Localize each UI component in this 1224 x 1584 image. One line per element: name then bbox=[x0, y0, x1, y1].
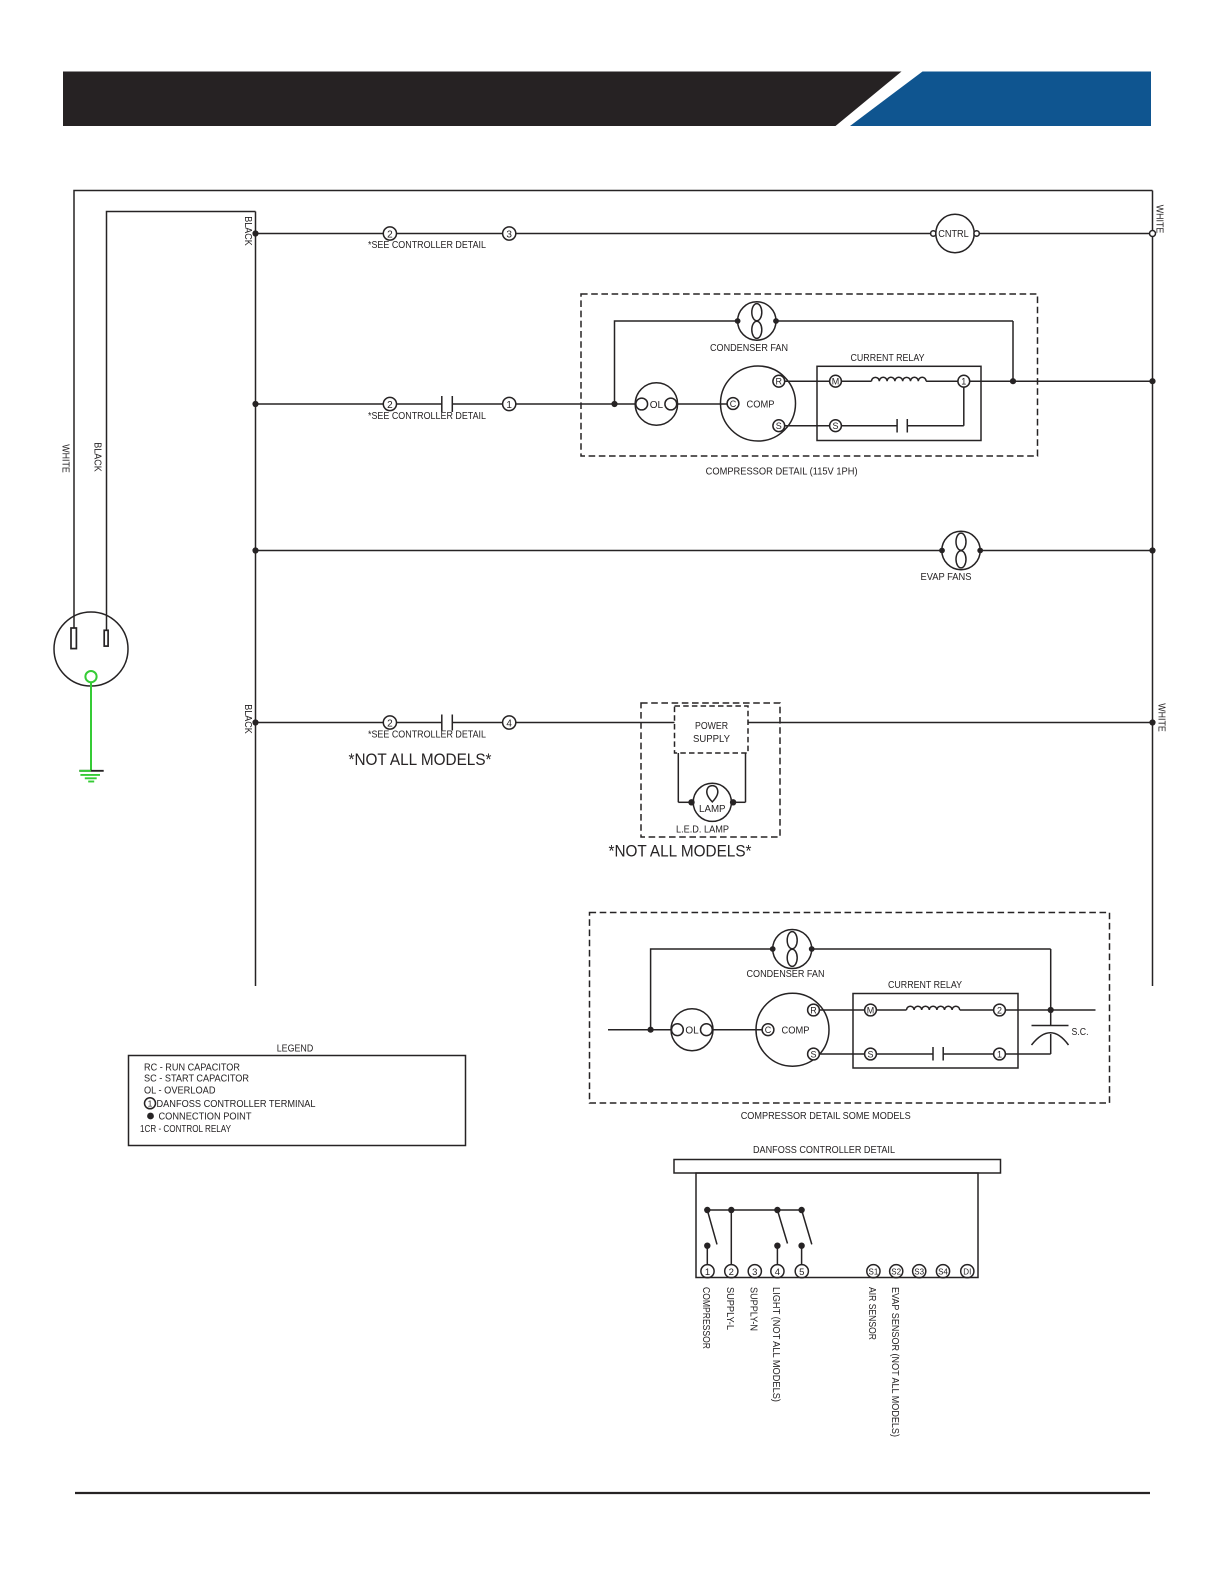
terminal 4 bbox=[771, 1265, 784, 1278]
relay capacitor bars bbox=[897, 419, 907, 433]
svg-text:*NOT ALL MODELS*: *NOT ALL MODELS* bbox=[609, 843, 753, 861]
svg-text:*SEE CONTROLLER DETAIL: *SEE CONTROLLER DETAIL bbox=[368, 411, 486, 422]
lower dot t4 bbox=[774, 1243, 780, 1249]
svg-text:2: 2 bbox=[387, 229, 393, 240]
svg-text:S4: S4 bbox=[938, 1267, 948, 1276]
svg-text:COMP: COMP bbox=[782, 1024, 810, 1036]
wire white right bus bbox=[1152, 191, 1154, 987]
terminal S2 bbox=[890, 1265, 903, 1278]
RUNG2 compressor line bbox=[252, 294, 1155, 478]
legend danfoss terminal symbol bbox=[145, 1098, 156, 1109]
junction dot white bus rung4 bbox=[1149, 719, 1155, 725]
svg-text:CNTRL: CNTRL bbox=[938, 229, 969, 240]
terminal 2 bbox=[725, 1265, 738, 1278]
junction dot fan branch bbox=[611, 401, 617, 407]
svg-text:M: M bbox=[832, 377, 840, 387]
svg-text:4: 4 bbox=[775, 1267, 780, 1278]
svg-text:4: 4 bbox=[506, 718, 512, 729]
ground wire (green) bbox=[90, 682, 92, 770]
junction dot white bus evap bbox=[1149, 547, 1155, 553]
RUNG1 control line bbox=[242, 205, 1165, 253]
current relay box bbox=[817, 366, 981, 440]
svg-text:2: 2 bbox=[387, 718, 393, 729]
terminal 1 bbox=[701, 1265, 714, 1278]
wire R to M bbox=[785, 380, 830, 382]
rail dot t5 bbox=[798, 1207, 804, 1213]
svg-text:DI: DI bbox=[963, 1267, 971, 1276]
wire rung4 to power supply bbox=[516, 722, 675, 724]
controller body bbox=[696, 1173, 978, 1278]
wire rung2 into box bbox=[516, 403, 636, 405]
LED lamp outer box (dashed) bbox=[641, 703, 780, 837]
relay coil bbox=[872, 377, 927, 381]
svg-text:1: 1 bbox=[997, 1050, 1002, 1060]
svg-text:2: 2 bbox=[729, 1267, 734, 1278]
svg-text:R: R bbox=[776, 377, 783, 387]
svg-text:S: S bbox=[832, 421, 838, 431]
svg-text:S: S bbox=[810, 1050, 816, 1060]
wire power supply to white bus bbox=[748, 722, 1150, 724]
svg-text:CONDENSER FAN: CONDENSER FAN bbox=[710, 343, 788, 354]
lamp filament loop bbox=[707, 786, 718, 802]
svg-text:C: C bbox=[730, 399, 737, 409]
condenser fan motor bbox=[738, 302, 776, 340]
svg-text:COMPRESSOR DETAIL SOME MODELS: COMPRESSOR DETAIL SOME MODELS bbox=[741, 1111, 911, 1122]
rail dot t4 bbox=[774, 1207, 780, 1213]
wire S2 to relay bbox=[819, 1053, 864, 1055]
svg-text:R: R bbox=[810, 1006, 817, 1016]
svg-text:1: 1 bbox=[148, 1099, 153, 1109]
wire M to coil bbox=[841, 380, 871, 382]
evap fan motor bbox=[942, 531, 980, 569]
header black banner bbox=[63, 72, 902, 127]
wire rung2 mid-left bbox=[397, 403, 442, 405]
plug hot blade bbox=[104, 630, 108, 646]
terminal R 2 bbox=[808, 1004, 820, 1016]
overload OL bbox=[635, 383, 677, 425]
plug neutral blade bbox=[71, 628, 76, 649]
svg-text:BLACK: BLACK bbox=[242, 216, 254, 246]
wire OL to COMP bbox=[677, 403, 727, 405]
svg-text:2: 2 bbox=[387, 400, 393, 411]
svg-text:S2: S2 bbox=[891, 1267, 901, 1276]
controller terminal 4 bbox=[503, 716, 516, 729]
wire coil2 to terminal 2 bbox=[960, 1009, 994, 1011]
rail dot t1 bbox=[704, 1207, 710, 1213]
wire rung4 left bbox=[256, 722, 384, 724]
wire M2 to coil bbox=[876, 1009, 906, 1011]
wire capacitor to 1 leg bbox=[907, 387, 964, 426]
wire fan2 to right drop bbox=[812, 949, 1051, 1007]
svg-text:CONDENSER FAN: CONDENSER FAN bbox=[747, 969, 825, 980]
junction dot black bus rung4 bbox=[252, 719, 258, 725]
wire black left bus bbox=[255, 212, 257, 987]
CNTRL coil left terminal bbox=[931, 231, 936, 236]
svg-text:M: M bbox=[867, 1006, 875, 1016]
wire fan to right drop bbox=[776, 321, 1013, 381]
wire S to cap bbox=[785, 425, 830, 427]
relay terminal M 2 bbox=[865, 1004, 877, 1016]
relay coil 2 bbox=[907, 1006, 960, 1010]
start capacitor SC bbox=[1050, 1010, 1052, 1026]
svg-text:5: 5 bbox=[799, 1267, 804, 1278]
svg-text:EVAP FANS: EVAP FANS bbox=[921, 572, 972, 583]
fan2 left dot bbox=[770, 946, 776, 952]
CNTRL coil bbox=[936, 214, 974, 252]
wire rung4 mid-right bbox=[452, 722, 502, 724]
junction dot black bus evap bbox=[252, 547, 258, 553]
compressor detail box (dashed) bbox=[581, 294, 1038, 456]
wire coil to 1 bbox=[926, 380, 958, 382]
CNTRL coil right terminal bbox=[974, 231, 979, 236]
compressor COMP bbox=[721, 366, 796, 441]
lamp left dot bbox=[688, 799, 694, 805]
switch blade 1 bbox=[707, 1210, 717, 1244]
svg-text:AIR SENSOR: AIR SENSOR bbox=[866, 1287, 878, 1340]
wire 1 to white bus bbox=[970, 380, 1150, 382]
relay terminal S bbox=[830, 420, 842, 432]
terminal S4 bbox=[936, 1265, 949, 1278]
wire rung2 mid-right bbox=[452, 403, 502, 405]
header blue banner bbox=[850, 72, 1151, 127]
fan left dot bbox=[735, 318, 741, 324]
svg-text:SC - START CAPACITOR: SC - START CAPACITOR bbox=[144, 1073, 249, 1084]
junction dot right of box bbox=[1010, 378, 1016, 384]
svg-text:1: 1 bbox=[961, 377, 966, 387]
wire evap right bbox=[980, 550, 1150, 552]
wire black from plug up and across bbox=[107, 212, 256, 632]
svg-text:1: 1 bbox=[506, 400, 512, 411]
svg-text:LIGHT (NOT ALL MODELS): LIGHT (NOT ALL MODELS) bbox=[770, 1287, 782, 1402]
svg-text:S3: S3 bbox=[914, 1267, 924, 1276]
svg-text:*SEE CONTROLLER DETAIL: *SEE CONTROLLER DETAIL bbox=[368, 730, 486, 741]
lower dot t5 bbox=[798, 1243, 804, 1249]
switch blade 5 bbox=[802, 1210, 812, 1244]
legend box bbox=[129, 1056, 466, 1146]
overload OL 2 bbox=[671, 1009, 713, 1051]
COMPRESSOR BOX 2 bbox=[590, 913, 1110, 1123]
svg-text:LEGEND: LEGEND bbox=[277, 1044, 314, 1055]
lower dot t1 bbox=[704, 1243, 710, 1249]
wire rung2 left bbox=[256, 403, 384, 405]
wire rung1 to CNTRL bbox=[516, 233, 931, 235]
junction dot white bus rung2 bbox=[1149, 378, 1155, 384]
wire lamp right bbox=[731, 801, 745, 803]
EVAP rung bbox=[252, 531, 1155, 583]
svg-text:OL: OL bbox=[685, 1026, 699, 1037]
svg-text:S: S bbox=[776, 421, 782, 431]
svg-text:DANFOSS CONTROLLER TERMINAL: DANFOSS CONTROLLER TERMINAL bbox=[157, 1099, 316, 1110]
terminal S3 bbox=[913, 1265, 926, 1278]
svg-text:2: 2 bbox=[997, 1006, 1002, 1016]
controller terminal 3 bbox=[503, 227, 516, 240]
svg-text:1: 1 bbox=[705, 1267, 710, 1278]
wire rung1 mid bbox=[397, 233, 503, 235]
PLUG bbox=[54, 442, 128, 781]
LED lamp bbox=[693, 783, 731, 821]
controller terminal 2 bbox=[383, 716, 396, 729]
wire rung1 left bbox=[256, 233, 384, 235]
switch blade 4 bbox=[777, 1210, 787, 1244]
wire OL2 to COMP2 bbox=[712, 1029, 762, 1031]
svg-text:1CR - CONTROL RELAY: 1CR - CONTROL RELAY bbox=[140, 1124, 231, 1135]
terminal 3 bbox=[748, 1265, 761, 1278]
svg-text:*SEE CONTROLLER DETAIL: *SEE CONTROLLER DETAIL bbox=[368, 240, 486, 251]
relay terminal 1 bbox=[958, 375, 970, 387]
svg-text:CONNECTION POINT: CONNECTION POINT bbox=[159, 1112, 252, 1123]
wire R2 to M2 bbox=[819, 1009, 864, 1011]
wire lamp left bbox=[678, 801, 693, 803]
relay common rail bbox=[707, 1209, 801, 1211]
svg-text:CURRENT RELAY: CURRENT RELAY bbox=[851, 353, 925, 364]
terminal DI bbox=[961, 1265, 974, 1278]
junction dot fan branch 2 bbox=[648, 1027, 654, 1033]
wire capacitor2 to 1 bbox=[943, 1053, 993, 1055]
terminal S 2 bbox=[808, 1048, 820, 1060]
terminal S bbox=[773, 420, 785, 432]
compressor detail some models box (dashed) bbox=[590, 913, 1110, 1104]
relay terminal M bbox=[830, 375, 842, 387]
fan2 right dot bbox=[809, 946, 815, 952]
condenser fan motor 2 bbox=[773, 930, 812, 969]
controller terminal 2 bbox=[383, 397, 396, 410]
wire PS right leg bbox=[745, 753, 747, 802]
wire evap left bbox=[256, 550, 943, 552]
svg-text:C: C bbox=[765, 1025, 772, 1035]
controller terminal 1 bbox=[503, 397, 516, 410]
power supply box (dashed) bbox=[675, 706, 749, 753]
terminal C 2 bbox=[762, 1024, 774, 1036]
plug body bbox=[54, 612, 128, 686]
junction dot black bus rung2 bbox=[252, 401, 258, 407]
svg-text:COMP: COMP bbox=[747, 398, 775, 410]
legend connection point symbol bbox=[147, 1113, 154, 1120]
svg-text:OL - OVERLOAD: OL - OVERLOAD bbox=[144, 1086, 216, 1097]
svg-text:3: 3 bbox=[752, 1267, 757, 1278]
svg-text:BLACK: BLACK bbox=[91, 442, 103, 472]
wire to condenser fan bbox=[615, 321, 738, 404]
controller terminal 2 bbox=[383, 227, 396, 240]
stub t1 bbox=[706, 1246, 708, 1265]
svg-text:OL: OL bbox=[650, 400, 664, 411]
compressor COMP 2 bbox=[756, 993, 829, 1066]
svg-text:EVAP SENSOR (NOT ALL MODELS): EVAP SENSOR (NOT ALL MODELS) bbox=[889, 1287, 901, 1437]
stub t4 bbox=[776, 1246, 778, 1265]
wire white top+left bbox=[74, 191, 1153, 629]
svg-text:SUPPLY: SUPPLY bbox=[693, 734, 730, 745]
wire rung4 mid-left bbox=[397, 722, 442, 724]
junction dot black bus rung1 bbox=[252, 230, 258, 236]
contact 1CR bars bbox=[442, 396, 453, 412]
svg-text:S.C.: S.C. bbox=[1072, 1027, 1089, 1038]
svg-text:COMPRESSOR: COMPRESSOR bbox=[700, 1287, 712, 1349]
terminal C bbox=[727, 398, 739, 410]
svg-text:BLACK: BLACK bbox=[242, 704, 254, 734]
relay terminal S 2 bbox=[865, 1048, 877, 1060]
fan right dot bbox=[773, 318, 779, 324]
svg-text:RC - RUN CAPACITOR: RC - RUN CAPACITOR bbox=[144, 1063, 240, 1074]
svg-text:CURRENT RELAY: CURRENT RELAY bbox=[888, 980, 962, 991]
wire terminal2 to stub right bbox=[1005, 1009, 1095, 1011]
junction dot SC branch bbox=[1048, 1007, 1054, 1013]
svg-text:*NOT ALL MODELS*: *NOT ALL MODELS* bbox=[349, 751, 493, 769]
wire rung1 right bbox=[979, 233, 1150, 235]
ground symbol bbox=[79, 770, 103, 772]
svg-text:WHITE: WHITE bbox=[60, 444, 72, 473]
relay capacitor bars 2 bbox=[933, 1047, 943, 1061]
svg-text:3: 3 bbox=[506, 229, 512, 240]
relay terminal 2 (circled 2) bbox=[994, 1004, 1006, 1016]
svg-text:SUPPLY-L: SUPPLY-L bbox=[724, 1287, 736, 1330]
LEGEND bbox=[129, 1044, 466, 1146]
wire to condenser fan 2 bbox=[651, 949, 773, 1030]
wire PS left leg bbox=[677, 753, 679, 802]
RUNG4 light line bbox=[242, 703, 1167, 861]
terminal S1 bbox=[867, 1265, 880, 1278]
wire S to capacitor bbox=[841, 425, 897, 427]
bottom rule bbox=[75, 1492, 1150, 1494]
svg-text:COMPRESSOR DETAIL (115V 1PH): COMPRESSOR DETAIL (115V 1PH) bbox=[706, 467, 858, 478]
wire S2 to capacitor bbox=[876, 1053, 933, 1055]
svg-text:DANFOSS CONTROLLER DETAIL: DANFOSS CONTROLLER DETAIL bbox=[753, 1145, 895, 1156]
terminal R bbox=[773, 375, 785, 387]
svg-text:WHITE: WHITE bbox=[1154, 205, 1166, 234]
rail dot t2 bbox=[728, 1207, 734, 1213]
evap fan right dot bbox=[977, 548, 983, 554]
svg-text:S: S bbox=[867, 1050, 873, 1060]
svg-text:SUPPLY-N: SUPPLY-N bbox=[748, 1287, 760, 1331]
relay terminal 1 (circled 1) bbox=[994, 1048, 1006, 1060]
svg-text:WHITE: WHITE bbox=[1155, 703, 1167, 732]
evap fan left dot bbox=[939, 548, 945, 554]
svg-text:S1: S1 bbox=[869, 1267, 879, 1276]
open junction on white bus bbox=[1150, 231, 1156, 237]
stub t5 bbox=[801, 1246, 803, 1265]
lamp right dot bbox=[730, 799, 736, 805]
controller top bar bbox=[674, 1160, 1001, 1174]
wire 1 to SC bbox=[1005, 1034, 1050, 1054]
stub t2 bbox=[730, 1210, 732, 1265]
contact 1CR bars bbox=[442, 715, 453, 731]
wire stub left bbox=[608, 1029, 672, 1031]
terminal 5 bbox=[795, 1265, 808, 1278]
svg-text:POWER: POWER bbox=[695, 721, 728, 732]
current relay box 2 bbox=[853, 994, 1018, 1069]
plug ground pin (green) bbox=[85, 671, 96, 682]
CONTROLLER DETAIL bbox=[674, 1145, 1001, 1437]
svg-text:LAMP: LAMP bbox=[699, 804, 726, 815]
svg-text:L.E.D. LAMP: L.E.D. LAMP bbox=[676, 825, 729, 836]
